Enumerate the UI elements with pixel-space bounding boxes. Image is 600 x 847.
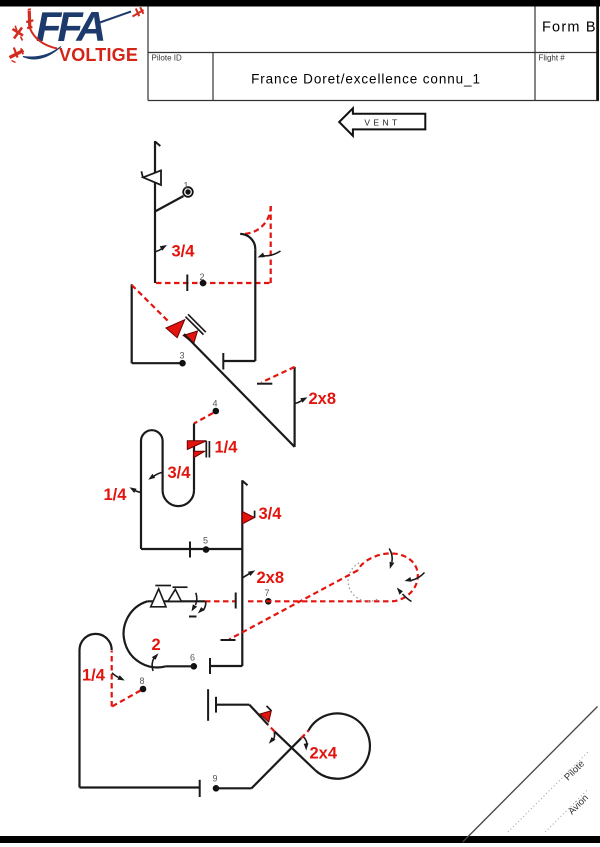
- top black bar: [0, 0, 600, 7]
- figure 4 top arc: [141, 430, 163, 441]
- figure 7 teardrop loop: [358, 553, 418, 601]
- figure 4 left vertical down: [140, 441, 142, 549]
- figure 9 snap flag: [260, 706, 271, 722]
- figure 3 spin symbol: [166, 314, 206, 343]
- svg-text:2: 2: [152, 636, 161, 654]
- figure 1 entry diagonal: [155, 196, 184, 212]
- svg-text:9: 9: [213, 774, 218, 784]
- svg-text:Flight #: Flight #: [539, 54, 566, 63]
- svg-text:6: 6: [190, 653, 195, 663]
- figure 7 dashed entry: [248, 600, 392, 602]
- figure 9 loop circle: [309, 713, 370, 778]
- figure 4 roll arrow 3/4: [148, 473, 161, 480]
- svg-text:3/4: 3/4: [172, 243, 196, 261]
- figure 8 dashed entry diagonal: [112, 691, 141, 707]
- svg-text:1/4: 1/4: [215, 439, 239, 457]
- figure 2 inverted entry dashed line: [156, 282, 271, 284]
- svg-text:1/4: 1/4: [104, 486, 128, 504]
- signature corner diagonal: [463, 707, 598, 843]
- figure 9 entry horizontal: [216, 787, 252, 789]
- figure 4 right vertical down: [193, 424, 195, 491]
- node 5: [203, 536, 210, 553]
- figure 1 vertical line: [154, 141, 156, 283]
- figure 2 dashed vertical up line: [270, 206, 272, 283]
- figure 2 start tick: [186, 275, 188, 292]
- svg-text:3/4: 3/4: [259, 505, 283, 523]
- svg-text:VENT: VENT: [364, 118, 400, 128]
- figure 5 hammerhead tick: [242, 481, 247, 486]
- logo blue swoosh: [23, 47, 61, 59]
- svg-text:2x8: 2x8: [309, 390, 337, 408]
- figure 3 solid 45 down line: [184, 334, 295, 447]
- bottom black bar: [0, 836, 600, 843]
- svg-text:3/4: 3/4: [168, 464, 192, 482]
- svg-text:2x4: 2x4: [310, 745, 338, 763]
- figure 9 dashed down segment: [268, 725, 275, 732]
- figure 9 end tick: [215, 697, 217, 713]
- svg-text:Pilote ID: Pilote ID: [152, 54, 182, 63]
- figure 2 down vertical: [254, 249, 256, 361]
- figure 2 roll arrow: [258, 251, 281, 258]
- figure 5 tall vertical: [241, 480, 243, 666]
- node 8: [140, 676, 147, 692]
- figure 4/5 bottom horizontal: [141, 548, 242, 550]
- logo red climbing plane: [26, 9, 33, 28]
- figure 9 down diagonal upper: [249, 705, 268, 725]
- figure 9 exit horizontal: [216, 704, 249, 706]
- svg-text:1: 1: [184, 181, 189, 191]
- figure 8 bottom horizontal: [80, 786, 200, 788]
- figure 8 end tick: [199, 780, 201, 797]
- sequence final bar: [207, 689, 209, 721]
- figure 5 bottom exit horizontal: [210, 665, 242, 667]
- figure 3 vertical up line: [131, 284, 133, 363]
- node 3: [179, 351, 186, 367]
- logo red trail arc: [30, 29, 57, 49]
- logo red lower plane: [10, 48, 24, 63]
- svg-text:France Doret/excellence connu_: France Doret/excellence connu_1: [251, 72, 481, 87]
- logo red x-plane: [13, 26, 24, 41]
- header table frame: [148, 7, 599, 101]
- figure 3 top dashed exit diagonal: [262, 367, 295, 383]
- figure 8 top half loop: [80, 634, 112, 650]
- figure 9 down diagonal lower: [275, 732, 316, 771]
- figure 9 up diagonal: [252, 738, 302, 788]
- figure 4 spin symbol: [187, 441, 209, 458]
- figure 4 bottom U arc: [163, 490, 194, 506]
- figure 5 snap flag: [242, 511, 254, 524]
- svg-text:3: 3: [180, 351, 185, 361]
- svg-text:7: 7: [265, 588, 270, 598]
- logo red biplane top right: [133, 7, 144, 16]
- figure 3 entry horizontal: [132, 362, 183, 364]
- svg-text:1/4: 1/4: [82, 667, 106, 685]
- node 4: [213, 399, 220, 415]
- figure 2 dashed top arc: [243, 206, 271, 234]
- table right border thick: [596, 7, 599, 101]
- start circle 1: [183, 181, 193, 197]
- VENT wind arrow: [339, 108, 425, 136]
- svg-text:2x8: 2x8: [257, 569, 285, 587]
- svg-text:VOLTIGE: VOLTIGE: [59, 45, 138, 65]
- figure 7 dashed exit diagonal: [229, 570, 357, 639]
- figure 9 roll arrow: [304, 737, 309, 751]
- figure 6 half loop: [124, 601, 166, 667]
- figure 4 roll arrow 1/4: [130, 487, 142, 493]
- svg-text:4: 4: [213, 399, 218, 409]
- figure 9 snap arrow: [269, 732, 276, 744]
- svg-text:5: 5: [203, 536, 208, 546]
- figure 6 dashed exit: [205, 600, 236, 602]
- figure 1 tailslide triangle: [141, 170, 161, 185]
- figure 4 dashed entry diagonal: [194, 413, 213, 424]
- svg-text:2: 2: [200, 272, 205, 282]
- figure 6 top horizontal: [147, 600, 205, 602]
- figure 3 roll arrow 2x8: [295, 397, 308, 403]
- figure 1 hammerhead tick: [155, 142, 160, 147]
- figure 1 roll arrow: [155, 245, 167, 252]
- node 9: [213, 774, 220, 792]
- figure 5 end tick: [209, 658, 211, 674]
- figure 3 vertical up right line: [294, 367, 296, 447]
- figure 8 roll arrow 1/4: [112, 673, 125, 681]
- figure 7 roll arrows: [389, 549, 424, 602]
- node 7: [265, 588, 272, 605]
- figure 6 turn arrow: [152, 653, 159, 671]
- svg-text:8: 8: [140, 676, 145, 686]
- figure 2 end tick: [222, 353, 224, 370]
- logo A-tail trail line: [97, 12, 131, 24]
- figure 5 roll arrow 2x8: [243, 570, 256, 578]
- figure 6 roll arrows: [189, 593, 206, 617]
- figure 6 end tick: [235, 593, 237, 609]
- pilote dotted line: [508, 752, 588, 832]
- figure 7 dotted hidden arc: [348, 563, 378, 601]
- figure 3 dashed 45 down line: [132, 285, 169, 322]
- figure 8 dashed vertical: [111, 651, 113, 707]
- figure 8 left vertical down: [78, 650, 80, 788]
- svg-text:Form B: Form B: [542, 20, 597, 36]
- figure 7 end bar: [221, 639, 236, 641]
- avion dotted line: [545, 789, 588, 832]
- node 6: [190, 653, 197, 670]
- figure 2 solid cusp arc: [240, 234, 255, 249]
- figure 9 dashed up segment: [301, 731, 309, 739]
- figure 2 exit horizontal: [223, 360, 255, 362]
- figure 5 start tick: [189, 542, 191, 558]
- figure 6 inverted snap triangles: [151, 586, 188, 607]
- figure 3 end bar: [257, 383, 272, 385]
- svg-text:FFA: FFA: [36, 3, 103, 50]
- figure 6 entry horizontal: [166, 665, 194, 667]
- node 2: [200, 272, 207, 286]
- figure 4 middle vertical up: [162, 441, 164, 490]
